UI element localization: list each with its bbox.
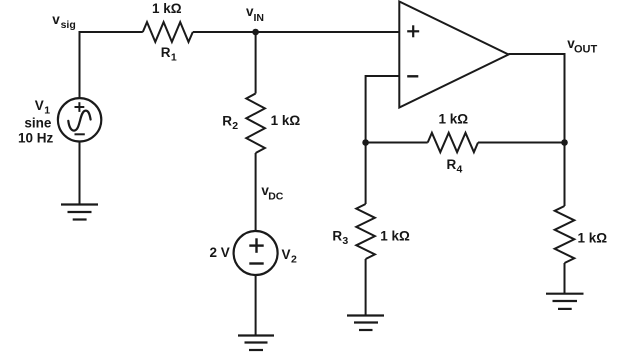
label V1 (35, 98, 50, 117)
wire op-amp output to v_OUT and load (509, 54, 565, 206)
svg-text:V: V (282, 247, 291, 262)
svg-text:1: 1 (171, 52, 177, 64)
ground R3 (347, 316, 384, 331)
label R3 (332, 228, 348, 247)
svg-text:1 kΩ: 1 kΩ (439, 112, 469, 127)
svg-text:10 Hz: 10 Hz (18, 131, 54, 146)
resistor RL load (555, 206, 575, 294)
svg-text:4: 4 (457, 164, 463, 176)
node v_IN junction dot (252, 29, 259, 36)
wire v_IN to R2 (255, 32, 257, 94)
svg-text:1 kΩ: 1 kΩ (380, 228, 410, 243)
source V1 sine (58, 98, 101, 141)
label R1 (161, 45, 177, 64)
svg-text:IN: IN (254, 12, 265, 24)
wire R1 to op-amp noninverting input (193, 31, 399, 33)
svg-text:1 kΩ: 1 kΩ (271, 113, 301, 128)
wire R2 to V2 (255, 153, 257, 231)
svg-text:R: R (222, 114, 232, 129)
ground load (546, 294, 584, 309)
svg-text:R: R (447, 157, 457, 172)
wire inverting input feedback (366, 76, 400, 143)
node v_sig (52, 12, 75, 31)
svg-text:2 V: 2 V (210, 245, 230, 260)
resistor R1 (143, 22, 193, 42)
resistor R4 (366, 133, 565, 152)
junction dot output node (561, 139, 568, 146)
ground V2 (238, 336, 274, 351)
resistor R3 (356, 143, 375, 316)
svg-text:1 kΩ: 1 kΩ (152, 1, 182, 16)
node v_DC (261, 183, 283, 202)
label R2 (222, 114, 238, 133)
svg-text:2: 2 (291, 254, 297, 266)
label R4 (447, 157, 463, 176)
label v_IN (246, 4, 264, 24)
wire v_sig corner to R1 (80, 32, 143, 99)
svg-text:R: R (332, 228, 342, 243)
svg-text:1 kΩ: 1 kΩ (578, 231, 608, 246)
svg-text:V: V (35, 98, 44, 113)
resistor R2 (246, 94, 265, 154)
junction dot R3 R4 node (362, 139, 369, 146)
source V2 DC (234, 231, 278, 275)
ground V1 (61, 205, 98, 220)
wire V1 to ground (79, 142, 81, 205)
svg-text:2: 2 (232, 120, 238, 132)
op-amp U1 (399, 2, 508, 108)
label V2 (282, 247, 298, 266)
svg-text:sig: sig (61, 19, 76, 31)
wire V2 to ground (255, 275, 257, 336)
svg-text:OUT: OUT (574, 43, 598, 55)
svg-text:DC: DC (268, 190, 284, 202)
label v_OUT (567, 36, 597, 55)
svg-text:3: 3 (342, 235, 348, 247)
svg-text:v: v (52, 12, 60, 27)
svg-text:R: R (161, 45, 171, 60)
svg-text:sine: sine (24, 115, 52, 130)
